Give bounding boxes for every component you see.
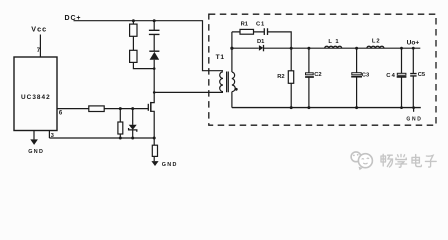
svg-text:GND: GND (162, 162, 178, 168)
svg-text:D1: D1 (257, 39, 265, 45)
svg-text:UC3842: UC3842 (21, 94, 51, 101)
svg-text:R2: R2 (277, 74, 284, 80)
svg-text:C2: C2 (314, 72, 321, 78)
svg-text:DC+: DC+ (65, 15, 82, 22)
svg-text:C4: C4 (386, 73, 396, 79)
svg-text:C3: C3 (362, 72, 370, 78)
svg-text:GND: GND (28, 149, 44, 155)
svg-text:R1: R1 (241, 21, 249, 27)
svg-text:C5: C5 (418, 72, 426, 78)
svg-text:T1: T1 (216, 54, 225, 61)
svg-text:3: 3 (51, 133, 54, 139)
svg-text:C1: C1 (256, 21, 265, 27)
svg-text:Vcc: Vcc (31, 25, 47, 34)
svg-text:L2: L2 (372, 39, 381, 45)
svg-text:Uo+: Uo+ (407, 40, 420, 47)
svg-text:L1: L1 (328, 39, 342, 45)
svg-text:GND: GND (406, 116, 422, 122)
